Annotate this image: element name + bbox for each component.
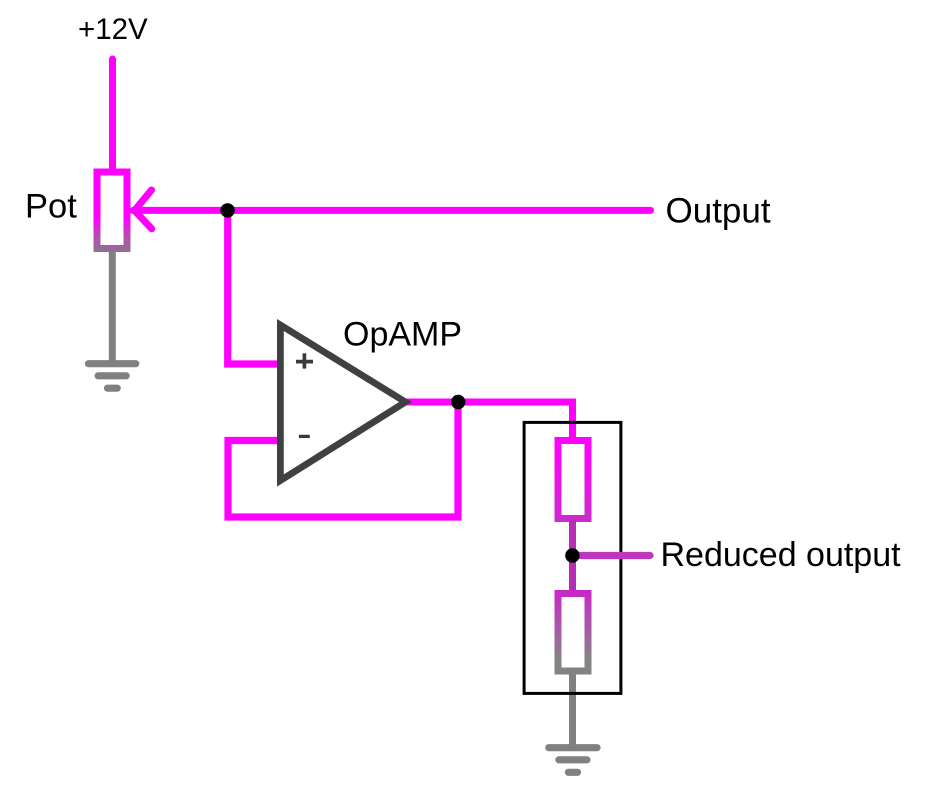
svg-text:+12V: +12V xyxy=(78,13,148,46)
wire Output horizontal xyxy=(133,207,651,214)
potentiometer wiper arrow xyxy=(135,190,152,229)
svg-text:Reduced output: Reduced output xyxy=(661,536,902,574)
ground symbol (bottom) xyxy=(549,748,597,773)
op-amp + input marker xyxy=(296,353,313,368)
wire op-amp output to divider xyxy=(405,402,573,440)
divider enclosure box xyxy=(524,422,621,693)
op-amp U1 triangle xyxy=(280,325,405,481)
node junction dot at op-amp output xyxy=(451,395,465,409)
svg-text:Output: Output xyxy=(666,191,771,230)
feedback wire from op-amp output to - input xyxy=(228,402,458,517)
svg-text:OpAMP: OpAMP xyxy=(343,315,462,353)
node junction dot at Output tap xyxy=(220,203,234,217)
wire between divider resistors xyxy=(569,520,576,593)
wire R2 to ground xyxy=(569,672,576,748)
wire to Reduced output xyxy=(574,552,650,559)
node junction dot at divider tap xyxy=(565,548,579,562)
wire pot bottom to ground xyxy=(109,250,116,364)
potentiometer Pot body xyxy=(97,172,127,249)
svg-text:Pot: Pot xyxy=(25,188,77,226)
resistor R2 (bottom of divider) xyxy=(558,594,588,672)
ground symbol (left) xyxy=(89,364,136,389)
wire junction to op-amp + input xyxy=(228,211,283,364)
wire from +12V to potentiometer xyxy=(109,59,116,172)
op-amp - input marker xyxy=(299,435,310,438)
resistor R1 (top of divider) xyxy=(558,441,588,519)
